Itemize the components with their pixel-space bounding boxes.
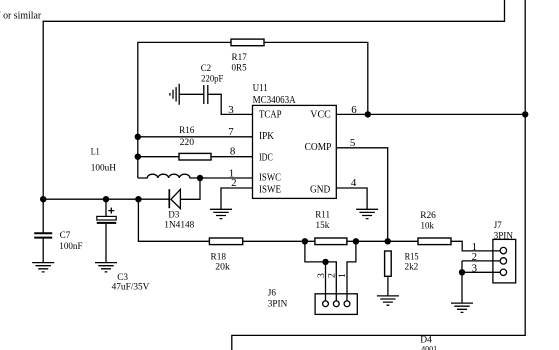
svg-text:GND: GND (310, 184, 330, 196)
svg-text:U11: U11 (253, 82, 268, 94)
wire VCC pin6 to right rail (336, 113, 525, 115)
node junction VCC/right rail (522, 111, 528, 117)
capacitor C7 plates (34, 233, 52, 237)
svg-text:3PIN: 3PIN (268, 299, 288, 310)
diode D3 cathode bar (168, 189, 170, 208)
diode D3 triangle (171, 189, 180, 208)
svg-text:0R5: 0R5 (232, 62, 247, 73)
connector J6 box (315, 294, 357, 315)
svg-text:220pF: 220pF (201, 74, 224, 85)
wire pin1 ISWC (200, 177, 253, 179)
svg-text:C7: C7 (60, 230, 71, 241)
node junction C3 tap (103, 196, 109, 202)
svg-text:8: 8 (230, 146, 236, 158)
svg-text:COMP: COMP (305, 141, 332, 153)
svg-text:5: 5 (350, 137, 356, 149)
wire pin5 COMP to bottom net (336, 148, 387, 242)
connector J7 pin circle 3 (500, 269, 506, 275)
inductor L1 (138, 174, 200, 178)
svg-text:47uF/35V: 47uF/35V (112, 282, 150, 293)
ground for C7 (32, 263, 54, 272)
wire J6 left branch (305, 241, 336, 301)
wire C7 to ground (42, 239, 44, 263)
svg-text:R26: R26 (420, 210, 436, 221)
svg-text:6: 6 (351, 104, 357, 116)
svg-text:IDC: IDC (259, 151, 273, 163)
resistor R16 body (179, 153, 211, 160)
svg-text:C2: C2 (201, 63, 211, 74)
svg-text:2: 2 (472, 251, 477, 263)
resistor R17 body (231, 39, 264, 46)
svg-text:100uH: 100uH (91, 163, 116, 174)
svg-text:IPK: IPK (259, 130, 274, 142)
svg-text:1N4148: 1N4148 (164, 219, 194, 230)
svg-text:3: 3 (228, 104, 234, 116)
node junction J6 pin3 (322, 259, 328, 265)
connector J6 pin circle 2 (333, 301, 339, 307)
resistor R18 body (209, 238, 242, 245)
wire C2 ground to plate (179, 93, 203, 95)
svg-text:3PIN: 3PIN (494, 230, 513, 241)
svg-text:J7: J7 (494, 220, 502, 231)
connector J7 pin circle 2 (500, 258, 506, 264)
wire pin4 GND to ground (336, 188, 367, 209)
resistor R11 body (315, 238, 347, 245)
svg-text:2: 2 (231, 177, 236, 189)
svg-text:4: 4 (351, 177, 357, 189)
capacitor C2 plates (204, 85, 208, 104)
wire R15 to ground (387, 276, 389, 295)
svg-text:2k2: 2k2 (405, 262, 419, 273)
capacitor C3 bottom plate (97, 222, 116, 224)
node junction J6 right (353, 238, 359, 244)
node junction R18 tap (135, 196, 141, 202)
node junction left rail (40, 196, 46, 202)
svg-text:1: 1 (337, 273, 348, 278)
svg-text:3: 3 (472, 263, 478, 275)
wire main output run (left rail to D3) (43, 198, 168, 200)
node junction R17/VCC (365, 111, 371, 117)
svg-text:7: 7 (228, 126, 234, 138)
capacitor C3 top plate (97, 216, 116, 220)
wire J6 pin3 drop (325, 262, 327, 301)
svg-text:20k: 20k (215, 262, 230, 273)
wire J7 pin2 (462, 260, 500, 262)
ground for R15 (377, 296, 399, 305)
wire J7 pin3 (462, 271, 500, 273)
ground for C3 (95, 263, 117, 272)
wire right rail and bottom run to D4 (232, 0, 525, 350)
ground (sideways) for C2 (170, 84, 179, 105)
svg-text:R16: R16 (179, 125, 194, 136)
node junction J7 pin3/ground (459, 269, 465, 275)
svg-text:L1: L1 (91, 147, 100, 158)
node junction on pin8 (135, 154, 141, 160)
svg-text:7 or similar: 7 or similar (0, 9, 42, 21)
svg-text:100nF: 100nF (59, 241, 83, 252)
wire pin2 ISWE to ground (221, 188, 253, 209)
connector J6 pin circle 3 (323, 301, 329, 307)
wire feedback bottom net (138, 199, 500, 251)
wire pin7 IPK (138, 136, 253, 138)
wire L1 node down to D3 anode (180, 178, 200, 199)
resistor R15 body (vertical) (385, 251, 392, 276)
svg-text:2: 2 (326, 273, 337, 278)
svg-text:220: 220 (180, 137, 195, 148)
svg-text:ISWE: ISWE (259, 184, 281, 196)
connector J7 pin circle 1 (500, 247, 506, 253)
svg-text:4001: 4001 (421, 344, 437, 350)
svg-text:ISWC: ISWC (259, 172, 281, 184)
plus sign for C3 (108, 208, 114, 214)
ground for J7 (451, 303, 473, 312)
wire R17 branch: left vertical to inductor, top run, right vertical to VCC (138, 42, 368, 178)
svg-text:J6: J6 (268, 287, 276, 298)
svg-text:10k: 10k (421, 221, 434, 232)
ground for pin4 (356, 209, 378, 218)
svg-text:TCAP: TCAP (259, 109, 282, 121)
svg-text:15k: 15k (316, 220, 330, 231)
wire pin8 IDC (138, 156, 253, 158)
wire J7 pin2 to pin3 link (461, 261, 463, 272)
connector J6 pin circle 1 (344, 301, 350, 307)
wire J7 ground drop (461, 272, 463, 303)
wire C3 to ground (105, 224, 107, 263)
connector J7 box (493, 239, 516, 283)
node junction J6 left (302, 238, 308, 244)
wire J6 right branch (347, 241, 356, 301)
wire top input net: from top edge down, across, and down left rail (43, 0, 504, 199)
node junction on pin7 (135, 134, 141, 140)
svg-text:MC34063A: MC34063A (253, 94, 296, 106)
capacitor C7 branch wire (42, 199, 44, 232)
capacitor C3 branch wire (105, 199, 107, 216)
resistor R26 body (418, 238, 451, 245)
node junction L1/D3/ISWC (197, 175, 203, 181)
ground for ISWE (210, 209, 232, 218)
svg-text:VCC: VCC (310, 109, 330, 121)
node junction COMP/R15 (385, 238, 391, 244)
op-amp U11 IC box MC34063A (253, 105, 337, 198)
wire C2 to pin3 TCAP (208, 94, 252, 114)
